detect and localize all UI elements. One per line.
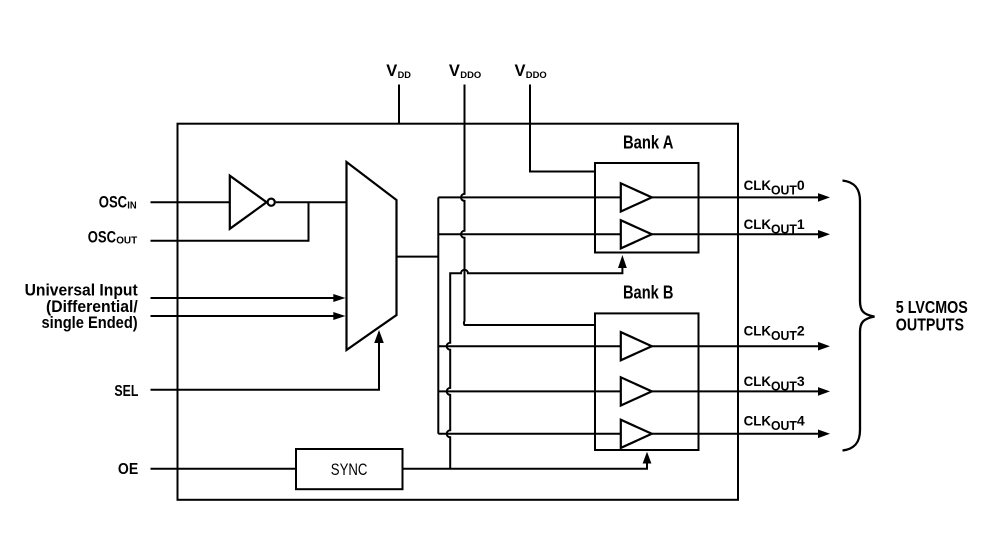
svg-text:IN: IN [127, 201, 136, 212]
svg-text:4: 4 [797, 412, 805, 428]
svg-text:CLK: CLK [744, 412, 771, 428]
svg-text:OUT: OUT [771, 222, 797, 237]
svg-text:V: V [515, 62, 526, 80]
svg-text:CLK: CLK [744, 373, 771, 389]
svg-text:DD: DD [398, 70, 412, 80]
svg-text:SYNC: SYNC [331, 460, 368, 479]
svg-text:single Ended): single Ended) [42, 314, 138, 332]
svg-text:(Differential/: (Differential/ [46, 298, 138, 316]
svg-text:OUTPUTS: OUTPUTS [896, 315, 964, 335]
svg-text:CLK: CLK [744, 177, 771, 193]
svg-text:CLK: CLK [744, 322, 771, 338]
svg-text:CLK: CLK [744, 216, 771, 232]
svg-text:OSC: OSC [88, 227, 116, 246]
svg-text:1: 1 [797, 216, 805, 232]
svg-text:2: 2 [797, 322, 805, 338]
svg-text:0: 0 [797, 177, 805, 193]
svg-text:V: V [386, 62, 397, 80]
svg-text:OUT: OUT [771, 418, 797, 433]
svg-text:V: V [449, 62, 460, 80]
svg-text:OUT: OUT [771, 183, 797, 198]
svg-text:DDO: DDO [526, 70, 547, 80]
svg-text:OUT: OUT [771, 379, 797, 394]
svg-text:OSC: OSC [99, 192, 127, 211]
svg-text:OE: OE [118, 461, 138, 478]
svg-text:3: 3 [797, 373, 805, 389]
svg-text:OUT: OUT [116, 236, 137, 247]
svg-text:Bank A: Bank A [623, 132, 673, 153]
svg-text:Bank B: Bank B [623, 282, 673, 303]
svg-text:DDO: DDO [460, 70, 481, 80]
svg-text:OUT: OUT [771, 328, 797, 343]
svg-text:SEL: SEL [114, 383, 138, 400]
